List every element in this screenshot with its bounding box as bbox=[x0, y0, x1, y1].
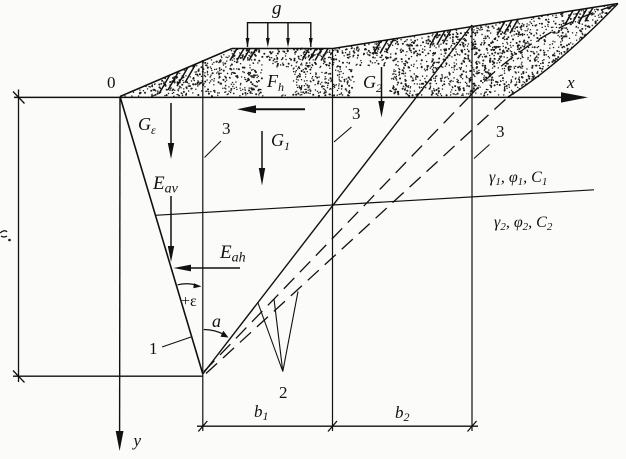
svg-text:3: 3 bbox=[222, 119, 231, 138]
dashed slip line B lower part bbox=[204, 98, 468, 372]
slip line A (solid, layer-1 surface) bbox=[203, 25, 472, 374]
ticks on bottom dimension bbox=[198, 421, 476, 432]
slip line C upper part: right boundary of fill bbox=[508, 4, 618, 98]
vertical section line 3 (middle) bbox=[332, 49, 334, 432]
distributed load g bracket bbox=[248, 23, 311, 47]
svg-text:1: 1 bbox=[149, 339, 158, 358]
dashed slip line C lower part bbox=[206, 97, 508, 374]
force F_h arrow bbox=[252, 108, 305, 110]
svg-text:y: y bbox=[132, 431, 142, 450]
force G_2 arrow bbox=[381, 67, 383, 103]
bottom line of wall-height dimension bbox=[13, 375, 203, 377]
svg-text:x: x bbox=[566, 73, 575, 92]
+epsilon angle arc with arrow bbox=[178, 284, 199, 286]
slope surface hatch marks bbox=[159, 8, 593, 94]
ground line (x-axis) bbox=[14, 96, 584, 98]
force G_1 arrow bbox=[261, 131, 263, 170]
bottom dimension line b1 b2 bbox=[197, 425, 478, 427]
leader lines of label 2 bbox=[258, 292, 298, 372]
svg-text:3: 3 bbox=[352, 104, 361, 123]
embankment slope right bbox=[333, 4, 618, 49]
svg-text:3: 3 bbox=[496, 122, 505, 141]
svg-text:2: 2 bbox=[279, 383, 288, 402]
loaded plateau surface bbox=[232, 48, 333, 50]
clipped label at left edge bbox=[0, 231, 7, 237]
y-axis bbox=[119, 97, 121, 435]
x-axis arrowhead bbox=[561, 92, 588, 102]
embankment slope left bbox=[120, 49, 232, 97]
force G_e arrow bbox=[170, 103, 172, 145]
force E_ah arrow bbox=[190, 267, 240, 269]
soil stipple dots bbox=[125, 5, 612, 96]
force E_av arrow bbox=[170, 196, 172, 248]
svg-text:+ε: +ε bbox=[181, 293, 197, 310]
svg-text:a: a bbox=[212, 311, 221, 331]
vertical section line 3 (at wall heel) bbox=[202, 60, 204, 431]
vertical section line 3 (right) bbox=[471, 25, 473, 431]
left dimension vertical (wall height) bbox=[18, 90, 20, 383]
svg-text:0: 0 bbox=[107, 73, 116, 92]
svg-text:g: g bbox=[272, 0, 282, 19]
angle a arc with arrow bbox=[204, 330, 224, 335]
wall back line 1 bbox=[120, 97, 203, 375]
tick top bbox=[13, 92, 25, 104]
tick bottom bbox=[13, 371, 25, 383]
soil layer boundary line bbox=[155, 190, 594, 216]
dashed slip line B upper part (in fill) bbox=[468, 5, 616, 98]
